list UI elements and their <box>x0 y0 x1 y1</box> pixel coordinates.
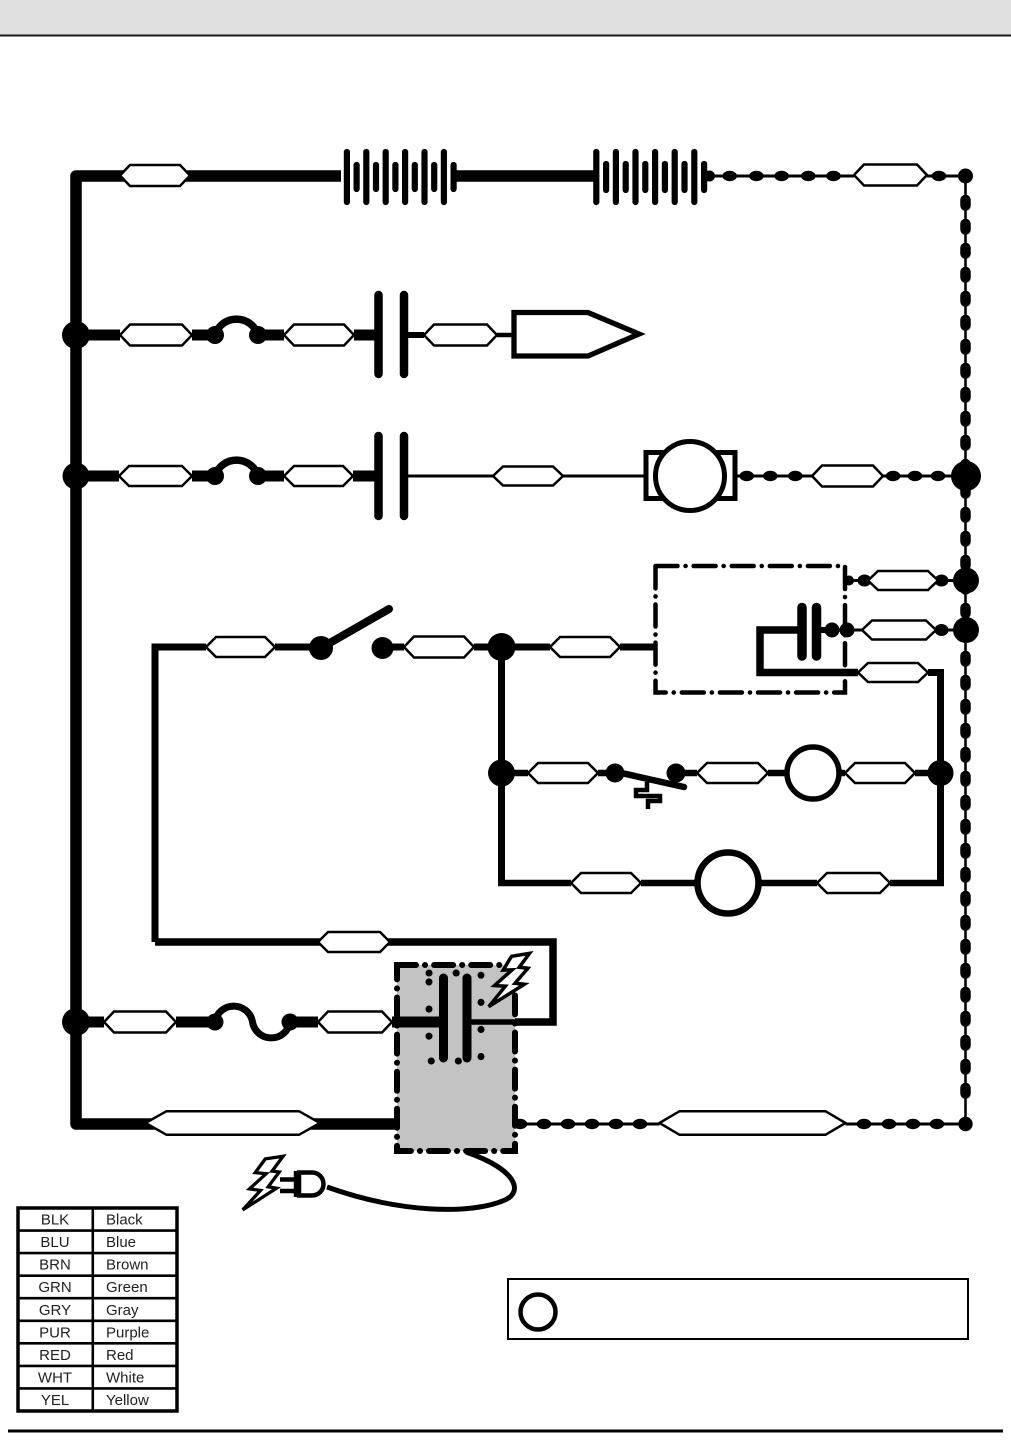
wire: left rail bus (B+ loop: top wire, left vertical, bottom wire) <box>76 176 398 1124</box>
wire relay e <box>839 770 845 777</box>
wire row3 c <box>258 471 284 482</box>
module U1 (dash-dot enclosure) <box>656 566 846 693</box>
wire row3 b <box>192 471 216 482</box>
wire label lamp-2 <box>817 873 890 893</box>
wire row3 g (beaded) <box>735 471 812 481</box>
wire switch row left + drop <box>155 647 206 942</box>
wire label row3-4 <box>812 466 883 487</box>
wire label lower loop <box>318 932 390 952</box>
wire row3 f <box>563 475 648 478</box>
svg-text:GRN: GRN <box>38 1279 71 1296</box>
svg-text:BLU: BLU <box>40 1234 69 1251</box>
junction (right rail / U1 pin A) <box>953 568 979 594</box>
wire C3 left plate loop out of U1 <box>760 630 858 673</box>
wire label sw-1 <box>206 637 275 657</box>
lamp L2 <box>698 853 759 914</box>
wire label relay-3 <box>845 763 915 783</box>
svg-text:PUR: PUR <box>39 1324 71 1341</box>
wire T1 secondary out <box>467 1019 553 1025</box>
power cord from T1 <box>327 1152 514 1209</box>
wire row2 a <box>76 330 120 341</box>
wire relay f <box>915 770 940 777</box>
wire bottom row right (beaded) <box>513 1117 973 1131</box>
wire sw c <box>474 644 502 651</box>
wire row2 d <box>354 330 375 341</box>
junction (right rail / C3 out) <box>953 617 979 643</box>
svg-text:Blue: Blue <box>106 1234 136 1251</box>
junction (left rail / row 3) <box>63 463 90 490</box>
capacitor C3 (inside U1) <box>802 608 817 657</box>
wire relay c <box>676 770 697 777</box>
wire row3 h (beaded) <box>883 471 965 481</box>
fuse F2 (loop link) <box>206 460 267 485</box>
wire row1022 b <box>176 1017 216 1028</box>
capacitor C1 <box>379 295 405 374</box>
junction (right rail / row 3) <box>951 461 981 491</box>
svg-text:BLK: BLK <box>41 1212 69 1229</box>
wire T1 primary feed <box>392 1017 441 1028</box>
wire U1 bottom out to solenoid rail <box>928 673 941 884</box>
wire label (U1 bottom out) <box>858 663 928 682</box>
wire label sw-3 <box>550 637 620 657</box>
wire label row3-1 <box>119 466 192 486</box>
battery BT2 (6-cell) <box>596 152 704 202</box>
wire label row1022-2 <box>318 1012 392 1033</box>
junction (relay row / solenoid rail) <box>928 760 954 786</box>
connector terminal P1 (spade) <box>514 313 639 357</box>
wire sw d <box>502 644 551 651</box>
lamp L1 <box>787 747 839 799</box>
wire label row2-1 <box>120 325 192 346</box>
wire lamp row a <box>498 880 571 887</box>
wire color legend table <box>18 1208 177 1411</box>
svg-text:RED: RED <box>39 1347 71 1364</box>
note box with key symbol <box>508 1279 968 1339</box>
wire label (top right) <box>854 165 927 186</box>
wire relay d <box>768 770 788 777</box>
svg-text:Gray: Gray <box>106 1302 139 1319</box>
wire row2 c <box>258 330 284 341</box>
wire row2 e <box>408 332 424 338</box>
wire label bottom-right (big) <box>660 1111 846 1135</box>
wire lamp row b <box>641 880 700 887</box>
svg-text:GRY: GRY <box>39 1302 71 1319</box>
wire label sw-2 <box>404 637 474 658</box>
switch S1 (open blade) <box>309 609 394 660</box>
wire row3 a <box>76 471 119 482</box>
battery BT1 (6-cell) <box>347 152 454 202</box>
page header bar <box>0 0 1011 35</box>
wire relay b <box>598 770 615 777</box>
wire label relay-2 <box>697 763 768 783</box>
wire sw a <box>275 644 321 651</box>
junction (left rail / row 2) <box>62 321 90 349</box>
wire C3 to right rail <box>816 623 965 638</box>
junction (switch row / solenoid drop) <box>488 633 516 661</box>
page footer rule <box>8 1430 1003 1433</box>
plug P2 (AC plug) <box>280 1171 324 1197</box>
wire battery link <box>455 170 596 182</box>
wire lamp row d <box>890 880 944 887</box>
wire label relay-1 <box>528 763 598 783</box>
wire lower loop: y941 horizontal, drop at x553 <box>155 942 553 1022</box>
hazard bolt (on T1) <box>489 953 530 1006</box>
switch S2 (thermal, closed blade) <box>606 764 686 810</box>
svg-text:Purple: Purple <box>106 1324 149 1341</box>
svg-text:Green: Green <box>106 1279 148 1296</box>
svg-text:Yellow: Yellow <box>106 1392 149 1409</box>
wire label row3-2 <box>284 466 353 486</box>
wire relay a <box>502 770 529 777</box>
svg-text:Brown: Brown <box>106 1257 149 1274</box>
wire row1022 a <box>76 1017 104 1028</box>
svg-text:YEL: YEL <box>41 1392 69 1409</box>
wire: beaded top wire to right rail <box>704 169 973 184</box>
wire label row2-2 <box>284 325 354 346</box>
svg-text:Black: Black <box>106 1212 143 1229</box>
wire row2 b <box>192 330 216 341</box>
wire label (top left) <box>120 165 190 186</box>
wire label row3-3 <box>493 467 563 486</box>
wire row1022 c <box>290 1017 318 1028</box>
wire lamp row c <box>758 880 817 887</box>
wire label row1022-1 <box>104 1012 176 1033</box>
wire label (C3 out) <box>862 621 936 640</box>
svg-text:WHT: WHT <box>38 1370 72 1387</box>
wire U1 pin A to right rail <box>844 575 965 587</box>
svg-text:Red: Red <box>106 1347 134 1364</box>
hazard bolt (at plug) <box>243 1156 283 1210</box>
wire row3 e <box>408 475 493 478</box>
motor M1 <box>646 442 735 511</box>
wire label (U1 pin A) <box>868 571 938 590</box>
wire label row2-3 <box>424 325 497 346</box>
wire label lamp-1 <box>571 873 641 893</box>
svg-text:White: White <box>106 1370 144 1387</box>
wire: right rail (beaded) <box>964 176 967 1124</box>
wire row2 f <box>497 333 514 338</box>
wire sw b <box>382 644 404 651</box>
wire row3 d <box>353 471 375 482</box>
fuse F1 (loop link) <box>206 319 267 344</box>
wire label bottom-left (big) <box>146 1111 321 1135</box>
fuse F3 (S-link) <box>207 1006 299 1038</box>
wire sw e (into U1) <box>620 644 655 651</box>
junction (left rail / row 1022) <box>62 1008 90 1036</box>
svg-text:BRN: BRN <box>39 1257 71 1274</box>
junction (drop / relay row) <box>488 760 515 787</box>
capacitor C2 <box>379 436 405 516</box>
transformer T1 (charger, gray dash-dot box) <box>397 965 515 1151</box>
wire drop junction to relay row and lamp row <box>498 647 505 884</box>
